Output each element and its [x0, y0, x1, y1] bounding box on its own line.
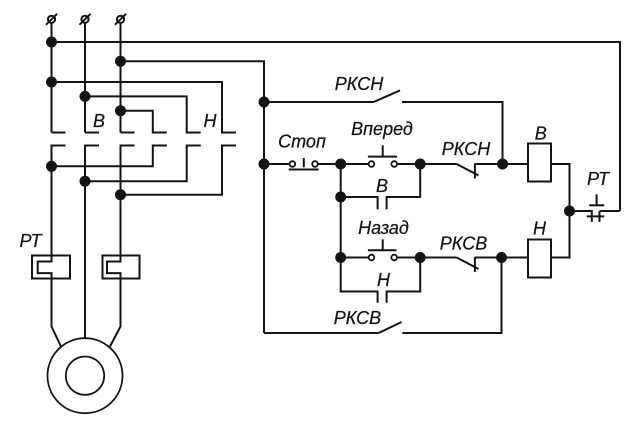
node after Stop	[336, 160, 345, 169]
wire phase C vertical	[120, 23, 122, 133]
wire phase A vertical	[51, 23, 53, 133]
contact H4 lower / crossover to phase A	[52, 146, 167, 167]
svg-text:Н: Н	[533, 218, 547, 238]
svg-text:В: В	[535, 124, 547, 144]
thermal heater RT left	[32, 256, 70, 279]
wire phase B vertical	[84, 23, 86, 133]
contact RT thermal (NC)	[570, 194, 621, 222]
node control rail / RKSN branch	[260, 98, 269, 107]
contact B3 upper foot	[121, 132, 135, 134]
wire Nazad to RKSV contact	[398, 257, 457, 259]
node phase B / H feed	[81, 92, 90, 101]
wire RKSN to coil B	[475, 163, 528, 165]
node B holding branch	[336, 193, 345, 202]
wire RKSV bottom branch right	[402, 258, 501, 334]
node phase C / H feed	[116, 106, 125, 115]
wire phase C to contact H column 4	[121, 111, 167, 133]
svg-text:РКСН: РКСН	[335, 74, 384, 94]
wire RKSV bottom branch left	[264, 332, 379, 334]
svg-text:РТ: РТ	[587, 169, 611, 189]
node phase A / top rail	[47, 38, 56, 47]
svg-text:РКСН: РКСН	[442, 139, 491, 159]
contact H5 lower / crossover to phase B	[85, 146, 201, 182]
wire RKSV to coil H	[475, 257, 528, 259]
contact RKSV (NO, bottom branch) blade	[379, 322, 402, 333]
contact B1 upper foot	[52, 132, 66, 134]
wire phase B to contact H column 5	[85, 96, 201, 132]
wire heater left to motor	[52, 279, 62, 347]
contact RKSV (NC, Nazad row) blade	[457, 258, 479, 270]
pushbutton Stop (NC)	[289, 158, 319, 170]
contact RKSN (NC, main row) blade	[457, 164, 479, 176]
wire top supply to right rail	[52, 42, 621, 211]
contact RKSN (NO, top branch) blade	[374, 90, 400, 102]
node coil B input	[498, 160, 507, 169]
contact B2 upper foot	[85, 132, 99, 134]
node crossover C	[116, 190, 125, 199]
wire phase C to control left rail	[121, 61, 265, 333]
wire Stop to node	[318, 163, 340, 165]
svg-text:РКСВ: РКСВ	[440, 234, 487, 254]
contact H6 lower / crossover to phase C	[121, 146, 237, 195]
node after Vpered	[416, 160, 425, 169]
node Nazad row left	[336, 253, 345, 262]
terminal L2	[79, 14, 90, 25]
svg-text:Назад: Назад	[358, 218, 409, 238]
svg-text:Вперед: Вперед	[351, 119, 413, 139]
wire coil H to RT node	[551, 211, 570, 258]
contact B holding (NO)	[341, 164, 421, 209]
wire heater right to motor	[110, 279, 121, 347]
svg-text:В: В	[376, 176, 388, 196]
contact RKSN (NC) fixed stub	[474, 164, 476, 179]
svg-text:РКСВ: РКСВ	[334, 308, 381, 328]
svg-text:В: В	[93, 111, 105, 131]
wire RKSN top branch left	[264, 101, 374, 103]
svg-text:РТ: РТ	[20, 231, 44, 251]
terminal L1	[46, 14, 57, 25]
node phase A / H feed	[47, 78, 56, 87]
node phase C / control feed	[116, 57, 125, 66]
contact H holding (NO)	[341, 258, 421, 303]
contact RKSV (NC) fixed stub	[474, 257, 476, 272]
wire coil B to RT node	[551, 164, 570, 211]
node crossover B	[81, 177, 90, 186]
wire node to Nazad button	[341, 257, 369, 259]
svg-text:Н: Н	[204, 111, 218, 131]
wire branch down from Stop node	[340, 164, 342, 258]
node RT junction	[565, 207, 574, 216]
node control rail / main row	[260, 160, 269, 169]
svg-text:Н: Н	[377, 270, 391, 290]
wire phase A to contact H column 6	[52, 82, 237, 133]
wire RKSN top branch right	[402, 102, 503, 164]
pushbutton Nazad (NO)	[368, 239, 397, 260]
motor M	[48, 338, 123, 413]
coil H	[528, 240, 551, 278]
node crossover A	[47, 162, 56, 171]
terminal L3	[115, 14, 126, 25]
wire Vpered to RKSN contact	[398, 163, 457, 165]
contact B1 lower	[52, 146, 66, 256]
thermal heater RT right	[103, 256, 140, 279]
svg-text:Стоп: Стоп	[278, 132, 326, 152]
node after Nazad	[416, 253, 425, 262]
coil B	[528, 144, 551, 182]
pushbutton Vpered (NO)	[368, 145, 397, 167]
node coil H input	[497, 253, 506, 262]
wire node to Vpered button	[341, 163, 369, 165]
contact B2 lower / wire to motor	[85, 146, 99, 338]
wire rail to Stop button	[264, 163, 289, 165]
contact B3 lower	[121, 146, 135, 256]
